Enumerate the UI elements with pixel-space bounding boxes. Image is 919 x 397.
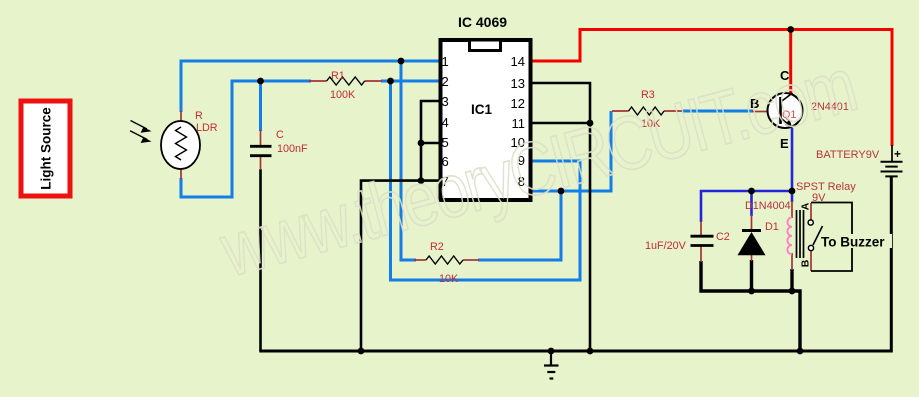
svg-text:R1: R1 (331, 70, 345, 82)
svg-text:A: A (800, 202, 812, 210)
svg-text:D1N4004: D1N4004 (745, 200, 791, 212)
light arrows (130, 121, 152, 144)
junction node pin7 (418, 177, 425, 184)
battery B1 (816, 145, 903, 176)
to buzzer label (820, 234, 892, 250)
svg-text:R2: R2 (430, 241, 444, 253)
junction node pin5 (418, 140, 425, 147)
light source box (21, 101, 70, 196)
wire: pin13 to ground drop (531, 83, 590, 351)
LDR R (161, 110, 218, 179)
svg-text:1: 1 (442, 54, 449, 69)
capacitor C (250, 129, 308, 170)
junction node emitter/coil (789, 188, 796, 195)
svg-text:BATTERY9V: BATTERY9V (816, 149, 880, 161)
wire: D1 top lead blue (750, 191, 753, 216)
wire: emitter down to relay rail (791, 128, 794, 191)
junction node coil bottom (789, 288, 796, 295)
svg-text:R: R (195, 110, 203, 122)
resistor R1 (309, 70, 382, 101)
junction node pin2/R1 line (387, 78, 394, 85)
svg-text:D1: D1 (765, 221, 779, 233)
wire: LDR top to pin1 line (181, 61, 441, 112)
wire: pins 3-5-7 bracket (421, 101, 441, 181)
junction node pin1 line (398, 58, 405, 65)
svg-text:LDR: LDR (196, 122, 218, 134)
wire: C top lead (259, 81, 262, 131)
svg-text:Light Source: Light Source (39, 107, 54, 190)
relay labels (796, 181, 856, 204)
svg-text:+: + (894, 147, 901, 161)
svg-text:2: 2 (442, 74, 449, 89)
junction node D1 bottom (748, 288, 755, 295)
svg-text:14: 14 (511, 54, 525, 69)
svg-text:13: 13 (511, 76, 525, 91)
junction node C top (257, 78, 264, 85)
wire: LDR bottom loop to pin2 line (181, 81, 311, 197)
transistor Q1 (750, 68, 849, 151)
svg-text:10K: 10K (439, 273, 459, 285)
svg-text:IC 4069: IC 4069 (458, 14, 507, 30)
svg-text:SPST Relay: SPST Relay (796, 181, 856, 193)
svg-text:B: B (800, 259, 812, 267)
junction node D1 top (748, 188, 755, 195)
resistor R3 (612, 89, 683, 130)
relay switch (800, 202, 823, 271)
wire: pin14 red to top rail and battery (531, 30, 892, 147)
svg-text:3: 3 (442, 94, 449, 109)
capacitor C2 (645, 221, 730, 262)
wire: D1 bottom lead (750, 260, 753, 291)
ground (544, 351, 559, 379)
diode D1 (738, 200, 791, 261)
junction node pin8/R2 (558, 188, 565, 195)
wire: red drop to collector (789, 30, 792, 94)
svg-text:C2: C2 (716, 231, 730, 243)
svg-text:100nF: 100nF (277, 143, 308, 155)
wire: relay feed rail (701, 191, 792, 222)
wire: pin2 dot down around to pin9 (391, 81, 581, 280)
svg-text:100K: 100K (330, 89, 356, 101)
junction node relay return (797, 348, 804, 355)
wire: coil top lead blue (791, 191, 794, 202)
svg-text:4: 4 (442, 115, 449, 130)
wire: R2 right up to pin8 line (478, 191, 561, 260)
junction node pin11/pin13 (587, 120, 594, 127)
IC1 4069 (441, 14, 531, 200)
relay core bars (797, 210, 804, 258)
wire: pin1 dot down to R2 left (401, 61, 416, 260)
svg-text:To Buzzer: To Buzzer (821, 235, 885, 250)
svg-text:C: C (276, 129, 284, 141)
wire: R3 right to base (682, 110, 753, 113)
wire: R1 right to pin2 (381, 80, 441, 83)
svg-text:1uF/20V: 1uF/20V (645, 240, 687, 252)
wire: bottom ground rail (259, 177, 891, 351)
IC pin numbers (442, 54, 526, 189)
junction node ground rail mid (587, 348, 594, 355)
wire: pin11 stub (531, 122, 590, 125)
relay coil (787, 201, 792, 270)
junction node ground rail left (358, 348, 365, 355)
buzzer bracket (811, 203, 852, 272)
junction node ground symbol (548, 348, 555, 355)
wire: pin8 to R3 left (531, 111, 611, 191)
wire: C bottom to ground rail (259, 169, 262, 351)
svg-text:12: 12 (511, 96, 525, 111)
wire: relay local bottom rail (701, 261, 800, 351)
svg-text:IC1: IC1 (471, 102, 493, 117)
resistor R2 (414, 241, 479, 285)
wire: coil bottom lead (790, 269, 793, 291)
wire: pin7 to ground drop (361, 181, 421, 351)
junction node collector rail (787, 26, 794, 33)
